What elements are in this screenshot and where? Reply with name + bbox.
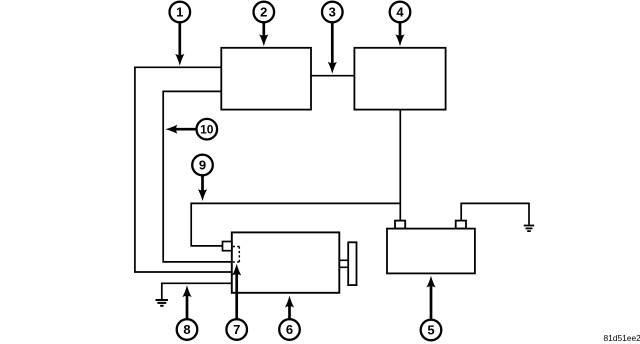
- wire W1: top-left feed wire (callout 1): [135, 67, 231, 272]
- starter drive gear: [348, 242, 356, 285]
- arrow 2: [259, 23, 268, 46]
- callout circle 1: [170, 2, 191, 23]
- wire: starter ground wire (callout 8): [162, 283, 231, 299]
- starter solenoid terminal connector (callout 7): [223, 242, 232, 251]
- arrow 1: [175, 23, 184, 66]
- svg-text:10: 10: [200, 123, 214, 137]
- svg-text:4: 4: [396, 5, 404, 20]
- svg-text:5: 5: [427, 323, 434, 338]
- svg-text:1: 1: [176, 5, 183, 20]
- callout circle 7: [226, 319, 247, 340]
- wire: box2 to box4 interconnect (callout 3): [311, 75, 354, 77]
- arrow 3: [328, 23, 337, 74]
- wire: box4 to battery positive post: [399, 110, 401, 221]
- wire: battery negative post to ground: [461, 203, 529, 224]
- arrow 8 (points up): [182, 285, 191, 319]
- dotted hidden terminal outline: [233, 247, 240, 263]
- box: control module (callout 4): [354, 48, 445, 110]
- wire W10: second feed wire (callout 10): [163, 91, 231, 262]
- arrow 9: [198, 176, 207, 201]
- starter drive shaft lines: [339, 260, 348, 267]
- wire W9: solenoid feed wire (callout 9): [191, 203, 400, 246]
- ground symbol (battery negative, top right): [524, 226, 534, 232]
- ground symbol (starter ground, left, callout 8): [156, 300, 169, 306]
- svg-text:3: 3: [329, 5, 336, 20]
- arrow 10 (points left): [166, 125, 196, 134]
- arrow 4: [395, 23, 404, 46]
- starter motor body (callout 6): [232, 232, 339, 292]
- arrow 5 (points up): [426, 276, 435, 319]
- svg-text:2: 2: [260, 5, 267, 20]
- arrow 7 (points up): [232, 264, 241, 319]
- callout circle 9: [192, 155, 213, 176]
- callout circle 5: [421, 320, 442, 341]
- svg-text:81d51ee2: 81d51ee2: [604, 333, 640, 343]
- svg-text:7: 7: [233, 322, 240, 337]
- svg-text:8: 8: [183, 322, 190, 337]
- callout circle 2: [253, 2, 274, 23]
- svg-text:6: 6: [286, 322, 293, 337]
- arrow 6 (points up): [285, 296, 294, 319]
- callout circle 4: [390, 2, 411, 23]
- callout circle 10: [197, 119, 218, 140]
- callout circle 8: [177, 319, 198, 340]
- callout circle 3: [322, 2, 343, 23]
- callout circle 6: [279, 319, 300, 340]
- battery (callout 5): [387, 221, 475, 274]
- svg-text:9: 9: [199, 158, 206, 173]
- box: relay/module (callout 2): [221, 48, 311, 110]
